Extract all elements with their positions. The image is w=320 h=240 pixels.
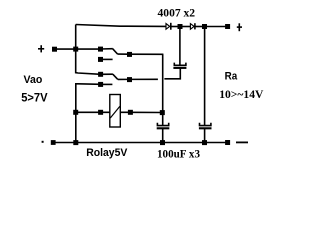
wire top rail to diode D1: [76, 25, 167, 27]
switch SW2 blade diagonal: [113, 74, 118, 79]
terminal square bottom right: [225, 140, 230, 145]
stub SW2 open contact: [103, 83, 112, 85]
wire SW2 contact to blade: [101, 73, 113, 75]
wire relay coil to right vertical: [120, 111, 162, 113]
label Rolay5V: [86, 147, 128, 159]
node SW1 common: [127, 52, 132, 57]
relay coil diagonal: [110, 106, 120, 118]
wire SW1 common to corner: [117, 53, 163, 55]
terminal square left +: [52, 47, 57, 52]
label 5>7V: [21, 91, 48, 104]
node between diodes: [178, 24, 183, 29]
wire C3 to bottom rail: [204, 129, 206, 143]
node junction top-left: [73, 47, 78, 52]
wire vertical A to SW2 feed corner: [76, 47, 101, 74]
wire vertical B from SW1 common corner down to capacitor C2: [162, 54, 164, 125]
node rail junction C2: [160, 140, 165, 145]
node SW2 common: [127, 77, 132, 82]
wire junction to relay coil: [76, 111, 110, 113]
wire bottom rail: [55, 142, 228, 144]
relay coil K1 rectangle: [110, 95, 121, 128]
wire C1 bottom to SW2 common row: [164, 68, 180, 79]
wire D1 to node: [171, 26, 180, 28]
diode D1 (4007): [166, 23, 171, 30]
wire vertical from diode node down to capacitor C1: [179, 27, 181, 65]
wire vertical A junction up to top corner: [75, 25, 77, 50]
label Ra: [225, 70, 238, 82]
switch SW2 input contact: [98, 72, 103, 77]
stub SW1 open contact: [103, 58, 113, 60]
wire vertical from diode output node down to capacitor C3: [204, 27, 206, 126]
label 100uF x3: [157, 148, 200, 161]
plus sign right output: [237, 23, 242, 31]
label 10>~14V: [219, 87, 264, 101]
svg-text:10>~14V: 10>~14V: [219, 87, 264, 101]
svg-text:5>7V: 5>7V: [21, 91, 48, 104]
wire node to + output terminal: [205, 26, 227, 28]
svg-text:Vao: Vao: [24, 74, 43, 86]
capacitor C3 bottom plate: [199, 127, 212, 129]
switch SW1 open contact: [98, 57, 103, 62]
capacitor C2 bottom plate: [157, 127, 170, 129]
wire D2 to output node: [195, 26, 205, 28]
capacitor C1 bottom plate: [173, 67, 186, 69]
wire C2 to bottom rail: [162, 129, 164, 143]
node relay coil right: [128, 110, 133, 115]
node relay coil left: [98, 110, 103, 115]
capacitor C1 top plate cup: [174, 63, 186, 66]
svg-text:4007 x2: 4007 x2: [158, 8, 196, 20]
switch SW1 blade diagonal: [113, 49, 118, 54]
node rail junction C3: [202, 140, 207, 145]
label Vao: [24, 74, 43, 86]
node diode output: [202, 24, 207, 29]
wire SW2 common left segment: [118, 78, 158, 80]
plus sign left input terminal: [38, 45, 44, 52]
wire + terminal to junction: [56, 48, 101, 50]
wire SW1 contact to blade: [101, 48, 113, 50]
svg-text:Ra: Ra: [225, 70, 238, 82]
wire node to diode D2: [180, 26, 191, 28]
capacitor C2 top plate cup: [157, 123, 168, 126]
svg-text:Rolay5V: Rolay5V: [86, 147, 128, 159]
svg-text:100uF x3: 100uF x3: [157, 148, 200, 161]
diode D2 (4007): [190, 23, 195, 29]
terminal square bottom left: [51, 140, 56, 145]
node rail junction left vertical: [73, 140, 78, 145]
switch SW2 open contact: [98, 82, 103, 87]
wire SW2 open contact to left vertical C: [76, 84, 101, 143]
switch SW1 input contact: [98, 47, 103, 52]
capacitor C3 top plate cup: [200, 123, 211, 126]
minus dot bottom left: [42, 141, 44, 143]
node junction on right vertical B: [160, 110, 165, 115]
minus sign bottom right: [236, 141, 248, 143]
label 4007 x2: [158, 8, 196, 20]
node relay feed junction: [73, 110, 78, 115]
terminal square right + output: [225, 24, 230, 29]
